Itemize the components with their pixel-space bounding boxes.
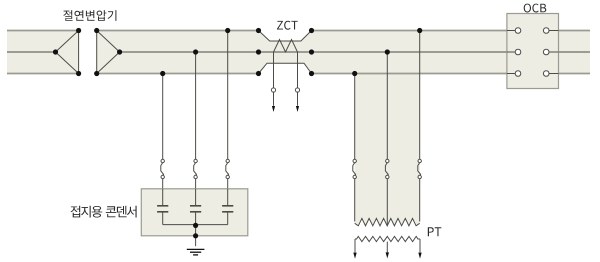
bottom phase wire diverted under ZCT — [259, 63, 312, 73]
ZCT secondary terminal k circle — [271, 88, 275, 92]
node: right delta apex terminal — [117, 49, 122, 54]
disconnect switch S1 — [161, 159, 165, 178]
transformer left delta winding — [56, 31, 79, 74]
PT disconnect switch S6 — [418, 159, 422, 178]
PT secondary resistor zigzag — [355, 236, 420, 241]
ZCT secondary lead k arrowhead — [272, 106, 275, 112]
node: box bottom junction — [193, 233, 198, 238]
capacitor branch wire 2 — [195, 52, 197, 159]
node: capacitor tap on top phase — [225, 28, 230, 33]
bottom bus line — [7, 73, 590, 75]
ZCT label — [277, 21, 298, 30]
PT vertical band fill with sawtooth bottom — [355, 74, 420, 226]
bus band main segment fill (transformer to OCB, narrowed at ZCT) — [97, 31, 507, 74]
PT secondary left arrowhead — [353, 253, 356, 259]
OCB top phase wire stubs — [507, 30, 559, 32]
PT secondary right lead — [419, 239, 421, 253]
ZCT secondary lead k wire — [273, 52, 275, 88]
node: ZCT top-left junction — [256, 28, 261, 33]
node: ZCT mid-right junction — [309, 49, 314, 54]
OCB bottom contact circles — [515, 71, 521, 77]
grounding capacitor label 접지용 콘덴서 — [71, 206, 137, 218]
bus band right segment fill (right of OCB) — [559, 31, 591, 74]
transformer right delta winding — [97, 31, 120, 74]
OCB middle contact circles — [515, 49, 521, 55]
insulation transformer label 절연변압기 — [63, 10, 116, 21]
PT band sawtooth bottom edge (primary winding) — [355, 218, 420, 225]
node: ZCT top-right junction — [309, 28, 314, 33]
OCB top contact circles — [515, 28, 521, 34]
PT label — [428, 227, 442, 236]
OCB middle phase wire stubs — [507, 51, 559, 53]
ground symbol — [187, 249, 205, 255]
top bus line — [7, 30, 590, 32]
node: left delta top terminal — [76, 28, 81, 33]
ZCT core M zigzag — [274, 40, 298, 53]
node: PT tap on top phase — [417, 28, 422, 33]
node: right delta top terminal — [94, 28, 99, 33]
node: left delta bottom terminal — [76, 71, 81, 76]
capacitor common link wire — [163, 224, 228, 226]
middle phase wire — [7, 51, 590, 53]
PT primary wire from middle phase — [386, 52, 388, 159]
node: ZCT mid-left junction — [256, 49, 261, 54]
PT disconnect switch S5 — [385, 159, 389, 178]
ZCT secondary lead l arrowhead — [296, 106, 299, 112]
capacitor branch wire 1 — [162, 74, 164, 160]
node: capacitor tap on bottom phase — [160, 71, 165, 76]
OCB label — [524, 4, 547, 13]
PT primary wire from bottom phase — [354, 74, 356, 160]
capacitor C3 — [222, 189, 233, 225]
node: PT tap on bottom phase — [352, 71, 357, 76]
PT secondary right arrowhead — [418, 253, 421, 259]
node: ZCT bottom-right junction — [309, 71, 314, 76]
PT secondary center arrowhead — [386, 252, 389, 258]
capacitor branch wire 3 — [227, 31, 229, 160]
neutral wire to ground — [195, 225, 197, 247]
node: capacitor tap on middle phase — [193, 49, 198, 54]
ZCT secondary terminal l circle — [295, 88, 299, 92]
ZCT secondary lead l wire — [297, 52, 299, 88]
PT secondary left lead — [354, 239, 356, 253]
OCB breaker box — [507, 14, 559, 89]
capacitor C1 — [157, 189, 168, 225]
PT primary wire from top phase — [419, 31, 421, 160]
capacitor C2 — [190, 189, 201, 225]
node: left delta apex terminal — [53, 49, 58, 54]
bus band left segment fill — [7, 31, 79, 74]
node: ZCT bottom-left junction — [256, 71, 261, 76]
node: right delta bottom terminal — [94, 71, 99, 76]
node: PT tap on middle phase — [385, 49, 390, 54]
grounding capacitor box — [141, 189, 248, 236]
OCB bottom phase wire stubs — [507, 73, 559, 75]
node: capacitor star point — [193, 223, 198, 228]
top phase wire diverted through ZCT — [259, 31, 312, 42]
disconnect switch S3 — [226, 159, 230, 178]
PT secondary center tap lead — [386, 242, 388, 253]
PT disconnect switch S4 — [353, 159, 357, 178]
disconnect switch S2 — [194, 159, 198, 178]
